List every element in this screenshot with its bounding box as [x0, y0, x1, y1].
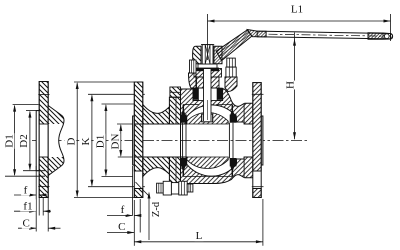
svg-text:D1: D1	[95, 135, 107, 148]
svg-text:C: C	[118, 221, 125, 233]
svg-text:f1: f1	[23, 200, 32, 212]
svg-text:f: f	[24, 184, 28, 196]
svg-text:L: L	[196, 230, 203, 242]
svg-text:D1: D1	[3, 134, 15, 147]
svg-text:C: C	[23, 217, 30, 229]
svg-text:H: H	[284, 81, 296, 89]
svg-text:f: f	[121, 204, 125, 216]
svg-text:D2: D2	[18, 134, 30, 147]
svg-text:DN: DN	[109, 134, 121, 150]
svg-text:L1: L1	[291, 3, 303, 15]
svg-text:Z-d: Z-d	[151, 201, 162, 217]
svg-text:D: D	[65, 137, 77, 145]
svg-text:K: K	[80, 137, 92, 145]
